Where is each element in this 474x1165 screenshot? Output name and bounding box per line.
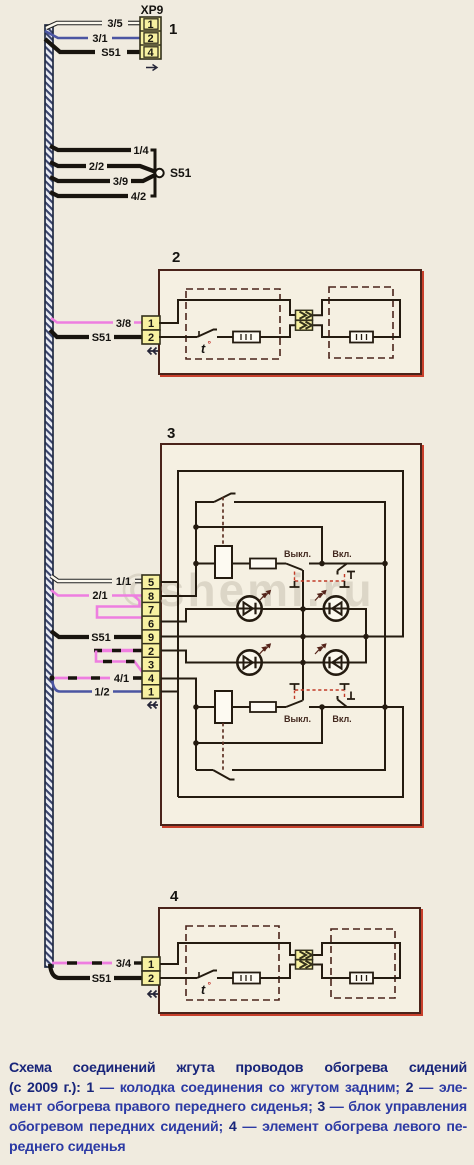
svg-text:1/1: 1/1 bbox=[116, 576, 131, 588]
svg-text:S51: S51 bbox=[91, 632, 111, 644]
svg-text:3/5: 3/5 bbox=[107, 18, 122, 30]
svg-text:1: 1 bbox=[148, 318, 154, 330]
svg-text:4: 4 bbox=[170, 888, 179, 905]
svg-text:1: 1 bbox=[148, 959, 154, 971]
svg-text:2: 2 bbox=[148, 973, 154, 985]
svg-text:2/2: 2/2 bbox=[89, 161, 104, 173]
svg-text:7: 7 bbox=[148, 605, 154, 617]
svg-text:Вкл.: Вкл. bbox=[332, 714, 351, 724]
svg-text:2: 2 bbox=[172, 249, 180, 266]
svg-text:6: 6 bbox=[148, 619, 154, 631]
svg-text:5: 5 bbox=[148, 577, 154, 589]
svg-text:1: 1 bbox=[147, 19, 153, 31]
svg-text:3/1: 3/1 bbox=[92, 33, 107, 45]
svg-text:8: 8 bbox=[148, 591, 154, 603]
svg-text:Выкл.: Выкл. bbox=[284, 549, 311, 559]
svg-text:4/2: 4/2 bbox=[131, 191, 146, 203]
svg-text:3: 3 bbox=[148, 660, 154, 672]
svg-text:S51: S51 bbox=[101, 47, 121, 59]
svg-text:°: ° bbox=[208, 980, 212, 990]
svg-text:9: 9 bbox=[148, 632, 154, 644]
svg-text:1/2: 1/2 bbox=[94, 687, 109, 699]
svg-text:S51: S51 bbox=[170, 166, 192, 180]
svg-text:3/9: 3/9 bbox=[113, 176, 128, 188]
svg-text:3/8: 3/8 bbox=[116, 318, 131, 330]
svg-text:2: 2 bbox=[148, 646, 154, 658]
svg-text:1/4: 1/4 bbox=[133, 145, 149, 157]
svg-text:2: 2 bbox=[148, 332, 154, 344]
svg-text:1: 1 bbox=[169, 21, 177, 38]
svg-text:XP9: XP9 bbox=[141, 3, 164, 17]
svg-text:4: 4 bbox=[147, 47, 154, 59]
svg-text:3/4: 3/4 bbox=[116, 958, 132, 970]
svg-text:2/1: 2/1 bbox=[92, 590, 107, 602]
svg-text:S51: S51 bbox=[92, 973, 112, 985]
svg-text:4/1: 4/1 bbox=[114, 673, 129, 685]
svg-text:°: ° bbox=[208, 339, 212, 349]
svg-text:S51: S51 bbox=[92, 332, 112, 344]
svg-text:Выкл.: Выкл. bbox=[284, 714, 311, 724]
svg-text:2: 2 bbox=[147, 33, 153, 45]
svg-text:4: 4 bbox=[148, 673, 155, 685]
svg-text:3: 3 bbox=[167, 425, 175, 442]
svg-text:Вкл.: Вкл. bbox=[332, 549, 351, 559]
svg-text:1: 1 bbox=[148, 687, 154, 699]
